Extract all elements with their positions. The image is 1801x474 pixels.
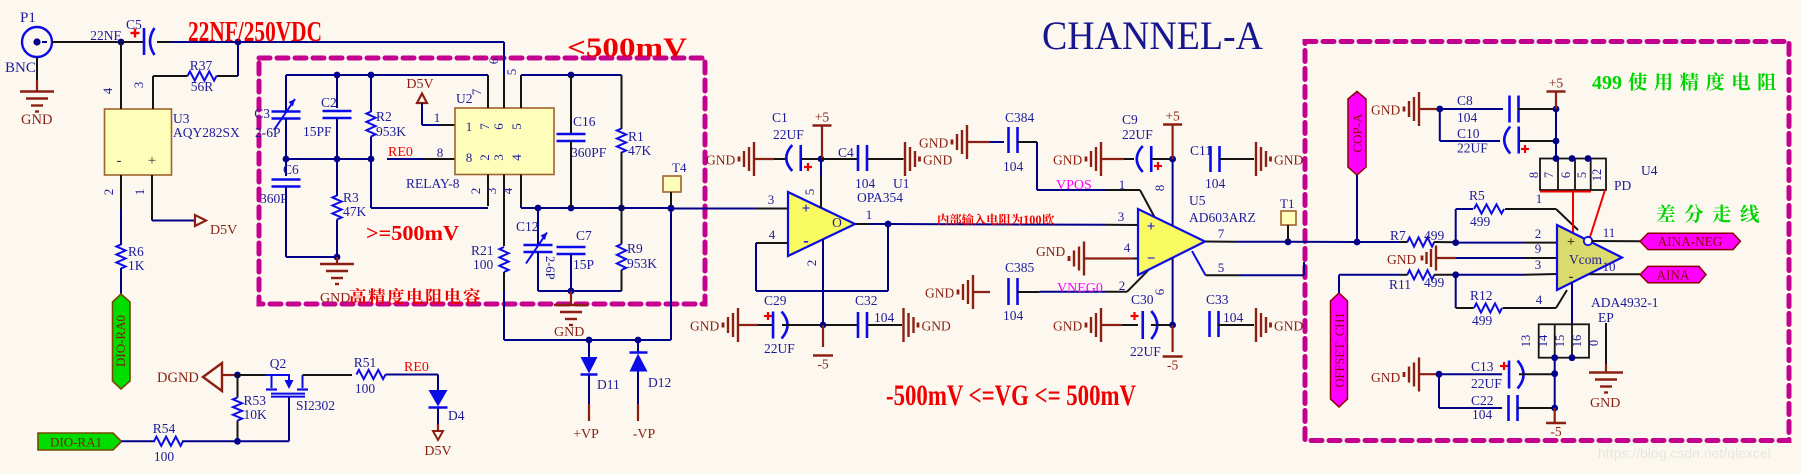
svg-text:GND: GND bbox=[1053, 153, 1082, 168]
svg-text:C1: C1 bbox=[772, 110, 788, 125]
svg-text:7: 7 bbox=[477, 123, 492, 130]
svg-text:104: 104 bbox=[1223, 310, 1244, 325]
svg-text:104: 104 bbox=[874, 310, 895, 325]
svg-text:7: 7 bbox=[1218, 226, 1225, 241]
svg-text:22UF: 22UF bbox=[764, 341, 795, 356]
svg-text:BNC: BNC bbox=[5, 60, 36, 76]
svg-text:<500mV: <500mV bbox=[567, 32, 687, 63]
svg-text:1: 1 bbox=[866, 207, 873, 222]
svg-text:1: 1 bbox=[132, 189, 147, 196]
svg-text:R6: R6 bbox=[128, 244, 144, 259]
svg-text:GND: GND bbox=[923, 153, 952, 168]
svg-text:2: 2 bbox=[1119, 278, 1126, 293]
svg-text:EP: EP bbox=[1598, 310, 1614, 325]
svg-text:8: 8 bbox=[466, 150, 473, 165]
svg-text:104: 104 bbox=[1205, 176, 1226, 191]
svg-text:499: 499 bbox=[1424, 228, 1445, 243]
svg-text:13: 13 bbox=[1519, 335, 1533, 348]
svg-text:8: 8 bbox=[437, 145, 444, 160]
svg-text:RELAY-8: RELAY-8 bbox=[406, 176, 460, 191]
svg-text:100: 100 bbox=[355, 381, 376, 396]
svg-text:DIO-RA1: DIO-RA1 bbox=[50, 435, 102, 450]
svg-text:2: 2 bbox=[804, 260, 819, 267]
svg-text:T4: T4 bbox=[672, 160, 687, 175]
svg-text:C16: C16 bbox=[573, 114, 596, 129]
svg-text:D4: D4 bbox=[448, 408, 465, 423]
svg-text:O: O bbox=[832, 215, 842, 230]
svg-text:-500mV <=VG <= 500mV: -500mV <=VG <= 500mV bbox=[886, 379, 1136, 412]
svg-text:R3: R3 bbox=[343, 190, 359, 205]
svg-text:100: 100 bbox=[473, 257, 494, 272]
svg-text:VPOS: VPOS bbox=[1056, 178, 1092, 193]
svg-text:R1: R1 bbox=[628, 129, 644, 144]
svg-text:C30: C30 bbox=[1131, 292, 1154, 307]
svg-text:22UF: 22UF bbox=[1122, 127, 1153, 142]
svg-text:R2: R2 bbox=[376, 109, 392, 124]
svg-text:C29: C29 bbox=[764, 293, 787, 308]
svg-text:1: 1 bbox=[434, 110, 441, 125]
svg-text:U4: U4 bbox=[1641, 163, 1658, 178]
svg-text:1: 1 bbox=[1119, 177, 1126, 192]
svg-text:U3: U3 bbox=[173, 111, 190, 126]
svg-text:C384: C384 bbox=[1005, 110, 1035, 125]
svg-text:RE0: RE0 bbox=[388, 145, 413, 160]
svg-text:CHANNEL-A: CHANNEL-A bbox=[1042, 13, 1263, 58]
svg-text:22UF: 22UF bbox=[773, 127, 804, 142]
svg-text:R37: R37 bbox=[190, 58, 213, 73]
svg-text:-: - bbox=[117, 153, 122, 169]
svg-text:6: 6 bbox=[1559, 172, 1573, 178]
svg-text:C2: C2 bbox=[321, 95, 337, 110]
svg-text:-: - bbox=[803, 231, 809, 250]
svg-text:+: + bbox=[148, 153, 156, 169]
svg-text:15PF: 15PF bbox=[303, 124, 332, 139]
svg-text:−: − bbox=[1147, 251, 1156, 267]
svg-text:GND: GND bbox=[1387, 252, 1416, 267]
svg-text:COP-A: COP-A bbox=[1350, 113, 1365, 153]
svg-text:>=500mV: >=500mV bbox=[366, 221, 459, 245]
svg-text:P1: P1 bbox=[20, 10, 36, 26]
svg-text:D5V: D5V bbox=[210, 223, 237, 238]
svg-text:6: 6 bbox=[491, 123, 506, 130]
svg-text:16: 16 bbox=[1570, 335, 1584, 348]
svg-text:AQY282SX: AQY282SX bbox=[173, 125, 240, 140]
svg-text:R7: R7 bbox=[1390, 228, 1406, 243]
svg-text:3: 3 bbox=[131, 82, 146, 89]
svg-text:5: 5 bbox=[1575, 172, 1589, 178]
svg-text:4: 4 bbox=[1124, 240, 1131, 255]
svg-text:SI2302: SI2302 bbox=[296, 398, 335, 413]
svg-text:GND: GND bbox=[1274, 319, 1303, 334]
svg-text:C12: C12 bbox=[516, 219, 539, 234]
svg-text:GND: GND bbox=[1371, 103, 1400, 118]
svg-text:3: 3 bbox=[768, 192, 775, 207]
svg-text:22UF: 22UF bbox=[1471, 376, 1502, 391]
svg-text:2: 2 bbox=[1535, 226, 1542, 241]
svg-text:47K: 47K bbox=[343, 204, 367, 219]
svg-text:D12: D12 bbox=[648, 375, 671, 390]
svg-text:10K: 10K bbox=[244, 407, 268, 422]
svg-text:R11: R11 bbox=[1389, 277, 1411, 292]
svg-text:R21: R21 bbox=[471, 243, 494, 258]
svg-text:5: 5 bbox=[802, 189, 817, 196]
svg-text:R9: R9 bbox=[627, 241, 643, 256]
svg-text:GND: GND bbox=[21, 112, 52, 128]
svg-text:11: 11 bbox=[1603, 225, 1616, 240]
svg-text:4: 4 bbox=[100, 87, 115, 94]
svg-text:DIO-RA0: DIO-RA0 bbox=[113, 315, 128, 367]
svg-text:C4: C4 bbox=[838, 145, 854, 160]
svg-text:+: + bbox=[1147, 219, 1156, 235]
svg-text:22UF: 22UF bbox=[1457, 141, 1488, 156]
svg-text:499: 499 bbox=[1472, 313, 1493, 328]
svg-text:1: 1 bbox=[466, 119, 473, 134]
svg-text:OPA354: OPA354 bbox=[857, 190, 903, 205]
svg-text:22NF/250VDC: 22NF/250VDC bbox=[188, 17, 322, 48]
svg-text:C32: C32 bbox=[855, 293, 878, 308]
svg-text:7: 7 bbox=[1542, 172, 1556, 178]
svg-text:7: 7 bbox=[469, 88, 484, 95]
svg-text:+5: +5 bbox=[1549, 76, 1564, 91]
svg-text:+: + bbox=[1567, 235, 1575, 250]
svg-text:3: 3 bbox=[491, 154, 506, 161]
svg-text:104: 104 bbox=[1003, 308, 1024, 323]
svg-text:5: 5 bbox=[1218, 260, 1225, 275]
svg-text:GND: GND bbox=[554, 325, 584, 340]
svg-text:15: 15 bbox=[1553, 335, 1567, 348]
svg-text:6: 6 bbox=[486, 57, 501, 64]
svg-text:104: 104 bbox=[1003, 159, 1024, 174]
svg-text:https://blog.csdn.net/qlexcel: https://blog.csdn.net/qlexcel bbox=[1598, 445, 1771, 461]
svg-text:360PF: 360PF bbox=[571, 145, 607, 160]
svg-text:5: 5 bbox=[509, 123, 524, 130]
svg-text:AINA: AINA bbox=[1657, 267, 1690, 282]
svg-text:104: 104 bbox=[1457, 110, 1478, 125]
svg-text:-5: -5 bbox=[817, 357, 828, 372]
svg-text:10: 10 bbox=[1603, 259, 1616, 274]
svg-text:GND: GND bbox=[690, 319, 719, 334]
svg-text:Vcom: Vcom bbox=[1569, 252, 1602, 267]
svg-text:2: 2 bbox=[101, 189, 116, 196]
svg-text:U5: U5 bbox=[1189, 193, 1206, 208]
svg-text:+VP: +VP bbox=[573, 427, 599, 442]
svg-text:U1: U1 bbox=[893, 176, 910, 191]
svg-text:C13: C13 bbox=[1471, 359, 1494, 374]
svg-text:GND: GND bbox=[706, 153, 735, 168]
svg-text:6: 6 bbox=[1152, 288, 1167, 295]
svg-text:2: 2 bbox=[477, 154, 492, 161]
svg-text:GND: GND bbox=[1036, 244, 1065, 259]
svg-text:2-6P: 2-6P bbox=[543, 256, 557, 280]
svg-text:R54: R54 bbox=[153, 421, 176, 436]
svg-text:2-6P: 2-6P bbox=[255, 125, 281, 140]
svg-text:953K: 953K bbox=[627, 256, 657, 271]
svg-text:56R: 56R bbox=[191, 79, 214, 94]
svg-text:C10: C10 bbox=[1457, 126, 1480, 141]
svg-text:499: 499 bbox=[1424, 275, 1445, 290]
svg-text:R12: R12 bbox=[1470, 288, 1493, 303]
svg-text:C9: C9 bbox=[1122, 112, 1138, 127]
svg-text:104: 104 bbox=[855, 176, 876, 191]
svg-text:DGND: DGND bbox=[157, 370, 199, 386]
svg-text:-5: -5 bbox=[1550, 424, 1561, 439]
svg-text:-: - bbox=[1569, 269, 1574, 285]
svg-text:3: 3 bbox=[484, 188, 499, 195]
svg-text:GND: GND bbox=[320, 291, 350, 306]
svg-text:R53: R53 bbox=[244, 393, 267, 408]
svg-text:GND: GND bbox=[922, 319, 951, 334]
svg-text:R5: R5 bbox=[1469, 188, 1485, 203]
svg-text:GND: GND bbox=[919, 136, 948, 151]
svg-text:Q2: Q2 bbox=[270, 356, 287, 371]
svg-text:C7: C7 bbox=[576, 228, 592, 243]
svg-text:R51: R51 bbox=[354, 355, 377, 370]
svg-text:OFFSET_CH1: OFFSET_CH1 bbox=[1333, 312, 1347, 387]
svg-text:GND: GND bbox=[1053, 319, 1082, 334]
svg-text:GND: GND bbox=[1371, 370, 1400, 385]
svg-text:100: 100 bbox=[1023, 213, 1041, 227]
svg-text:12: 12 bbox=[1590, 169, 1604, 182]
svg-text:-VP: -VP bbox=[633, 427, 656, 442]
svg-text:AINA-NEG: AINA-NEG bbox=[1658, 234, 1723, 249]
svg-text:GND: GND bbox=[1274, 153, 1303, 168]
svg-text:8: 8 bbox=[1527, 172, 1541, 178]
svg-text:22UF: 22UF bbox=[1130, 344, 1161, 359]
svg-text:-5: -5 bbox=[1167, 358, 1178, 373]
svg-text:4: 4 bbox=[500, 187, 515, 194]
svg-text:C3: C3 bbox=[254, 106, 270, 121]
svg-text:22NF: 22NF bbox=[90, 28, 121, 43]
svg-text:2: 2 bbox=[468, 188, 483, 195]
svg-text:8: 8 bbox=[1152, 185, 1167, 192]
svg-text:+: + bbox=[802, 201, 811, 217]
svg-text:GND: GND bbox=[925, 286, 954, 301]
svg-text:100: 100 bbox=[154, 449, 175, 464]
svg-text:D5V: D5V bbox=[424, 444, 451, 459]
svg-text:360P: 360P bbox=[260, 191, 288, 206]
svg-text:3: 3 bbox=[1118, 209, 1125, 224]
svg-text:C33: C33 bbox=[1206, 292, 1229, 307]
svg-text:0: 0 bbox=[1587, 340, 1601, 346]
svg-text:C8: C8 bbox=[1457, 93, 1473, 108]
svg-text:C385: C385 bbox=[1005, 260, 1035, 275]
svg-text:AD603ARZ: AD603ARZ bbox=[1189, 210, 1256, 225]
svg-text:PD: PD bbox=[1614, 178, 1632, 193]
svg-text:1K: 1K bbox=[128, 258, 145, 273]
svg-text:499: 499 bbox=[1592, 72, 1622, 94]
svg-text:14: 14 bbox=[1536, 334, 1550, 347]
svg-text:VNEG0: VNEG0 bbox=[1057, 281, 1103, 296]
svg-text:C6: C6 bbox=[283, 162, 299, 177]
svg-text:C22: C22 bbox=[1471, 393, 1494, 408]
svg-text:RE0: RE0 bbox=[404, 360, 429, 375]
svg-text:GND: GND bbox=[1590, 396, 1620, 411]
svg-text:D5V: D5V bbox=[406, 77, 433, 92]
svg-text:104: 104 bbox=[1472, 407, 1493, 422]
svg-text:499: 499 bbox=[1470, 214, 1491, 229]
svg-text:4: 4 bbox=[769, 227, 776, 242]
svg-text:D11: D11 bbox=[597, 377, 620, 392]
svg-text:C11: C11 bbox=[1190, 143, 1212, 158]
svg-text:+5: +5 bbox=[815, 110, 830, 125]
svg-text:ADA4932-1: ADA4932-1 bbox=[1591, 295, 1659, 310]
svg-text:5: 5 bbox=[504, 69, 519, 76]
svg-text:3: 3 bbox=[1535, 257, 1542, 272]
svg-text:T1: T1 bbox=[1280, 196, 1294, 211]
svg-text:47K: 47K bbox=[628, 143, 652, 158]
svg-text:+5: +5 bbox=[1165, 109, 1180, 124]
svg-text:953K: 953K bbox=[376, 124, 406, 139]
svg-text:1: 1 bbox=[1536, 191, 1543, 206]
svg-text:4: 4 bbox=[1536, 292, 1543, 307]
svg-text:4: 4 bbox=[509, 154, 524, 161]
svg-text:15P: 15P bbox=[573, 257, 594, 272]
